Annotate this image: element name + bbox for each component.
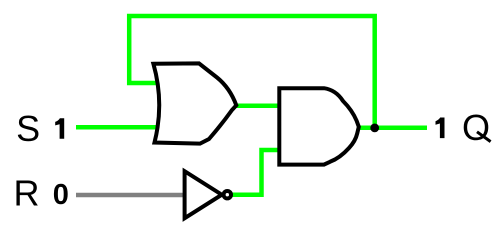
inverter bubble (224, 191, 231, 198)
wire OR output to AND top input (234, 104, 281, 109)
value 1 at S (55, 118, 64, 139)
and-gate (279, 88, 359, 164)
or-gate (153, 63, 236, 143)
svg-text:O: O (462, 107, 490, 148)
svg-text:0: 0 (53, 179, 69, 211)
value 1 at Q (436, 118, 445, 139)
wire R input (low, gray) (76, 193, 186, 198)
svg-text:R: R (14, 173, 40, 214)
wire S input (76, 125, 160, 130)
wire feedback from Q node up over top to OR top input (129, 16, 375, 128)
inverter triangle (185, 171, 222, 218)
svg-text:S: S (16, 108, 40, 149)
wire AND output to Q (356, 126, 427, 131)
wire inverter output to AND bottom input (231, 150, 281, 195)
node Q junction dot (370, 124, 379, 133)
